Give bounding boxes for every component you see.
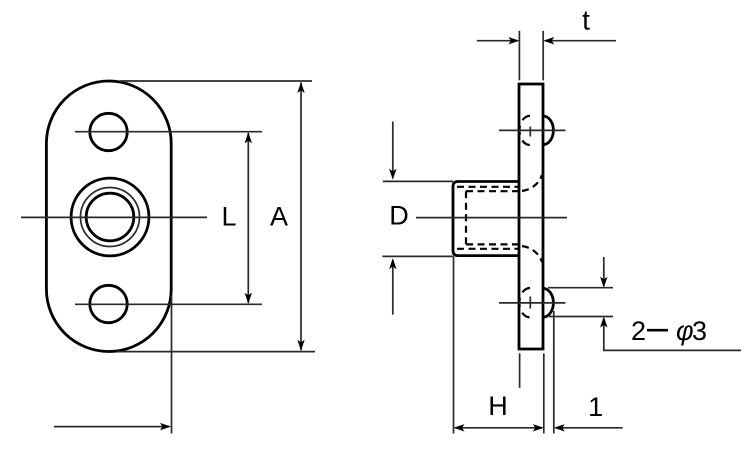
svg-text:2: 2 — [631, 316, 646, 346]
svg-text:H: H — [488, 391, 508, 421]
svg-text:1: 1 — [588, 392, 603, 422]
svg-text:φ: φ — [676, 316, 694, 346]
svg-text:3: 3 — [692, 316, 707, 346]
svg-text:L: L — [221, 202, 236, 232]
svg-text:A: A — [270, 202, 288, 232]
svg-text:t: t — [582, 5, 590, 36]
svg-text:D: D — [389, 201, 409, 231]
